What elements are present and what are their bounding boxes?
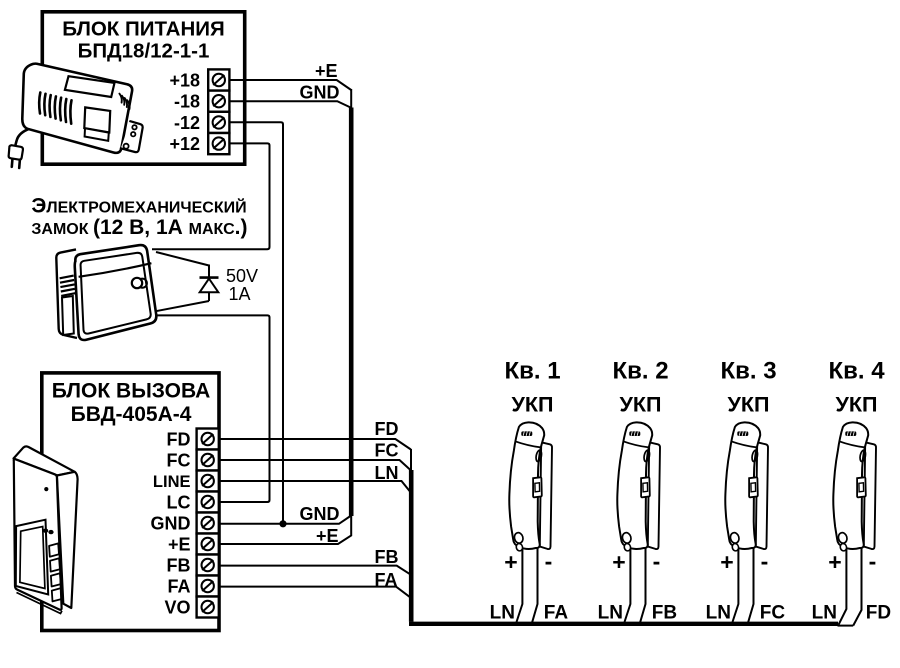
screw symbol FC — [202, 454, 214, 466]
svg-text:БВД-405А-4: БВД-405А-4 — [71, 403, 192, 426]
screw symbol FA — [202, 580, 214, 592]
svg-text:+18: +18 — [169, 71, 200, 91]
wire handset1 LN — [517, 548, 523, 622]
panel bottom sliver — [17, 593, 62, 614]
node junction dot -12/GND — [279, 520, 286, 527]
svg-text:FB: FB — [652, 603, 677, 624]
svg-text:БЛОК ВЫЗОВА: БЛОК ВЫЗОВА — [52, 380, 211, 403]
lock back plate — [56, 249, 77, 338]
svg-text:УКП: УКП — [836, 392, 878, 416]
terminal block BPD (+18 -18 -12 +12) — [208, 69, 229, 154]
wire trunk left (bundle +E/GND) — [349, 108, 354, 517]
screw symbol GND — [202, 517, 214, 529]
adapter mounting bracket — [121, 121, 143, 152]
handset bottom ovals — [513, 532, 524, 544]
wire FD from BVD — [218, 439, 411, 450]
svg-text:УКП: УКП — [728, 392, 770, 416]
power supply adapter drawing — [9, 64, 143, 168]
svg-text:-12: -12 — [174, 113, 200, 133]
panel front face — [14, 459, 62, 610]
screw symbol +E — [202, 538, 214, 550]
wire handset1 FA — [532, 548, 538, 623]
screw symbol FD — [202, 433, 214, 445]
adapter plug prongs — [12, 160, 20, 169]
svg-text:ЭЛЕКТРОМЕХАНИЧЕСКИЙ: ЭЛЕКТРОМЕХАНИЧЕСКИЙ — [31, 195, 246, 218]
svg-text:LINE: LINE — [153, 473, 191, 491]
svg-text:+: + — [720, 549, 733, 575]
screw symbol -12 — [213, 116, 225, 128]
panel top face — [14, 446, 75, 475]
intercom panel drawing (BVD front) — [14, 446, 78, 613]
svg-text:LN: LN — [706, 603, 731, 624]
lock main body — [75, 245, 157, 340]
svg-text:LN: LN — [490, 603, 515, 624]
wire FC from BVD — [218, 460, 411, 471]
lock bolt plate — [62, 296, 74, 335]
wire bus thin tail right end — [838, 625, 854, 627]
handset UKP Kv.3 — [725, 422, 768, 551]
adapter plug — [9, 145, 23, 159]
wire trunk right (bundle to bus) — [409, 470, 414, 622]
svg-text:FC: FC — [375, 440, 399, 460]
screw symbol LINE — [202, 475, 214, 487]
handset UKP Kv.2 — [617, 422, 660, 551]
handset UKP Kv.1 — [509, 422, 552, 551]
handset hook hole — [535, 450, 542, 462]
panel button 4 — [52, 588, 62, 601]
lock cylinder button — [138, 279, 147, 288]
svg-text:FD: FD — [866, 603, 891, 624]
wire trunk right thin tip — [410, 449, 412, 471]
terminal +12 — [208, 133, 229, 154]
svg-text:БПД18/12-1-1: БПД18/12-1-1 — [78, 40, 210, 63]
wire LN from BVD LINE — [218, 481, 411, 493]
wire slant diode bottom to lock — [156, 301, 209, 311]
adapter bracket screw holes — [132, 125, 136, 129]
screw symbol +18 — [213, 74, 225, 86]
handset earpiece line — [515, 441, 541, 447]
svg-text:LN: LN — [812, 603, 837, 624]
adapter body — [22, 64, 132, 153]
panel button 3 — [51, 573, 61, 586]
svg-text:+: + — [504, 549, 517, 575]
wire +E from +18 terminal — [229, 80, 351, 90]
screw symbol FB — [202, 559, 214, 571]
handset logo — [521, 431, 532, 436]
wire trunk left thin tip — [350, 89, 352, 108]
wire +12 to lock top — [152, 143, 270, 249]
screw symbol -18 — [213, 95, 225, 107]
handset bracket plate — [540, 442, 552, 549]
wire lock bottom to LC terminal — [150, 315, 270, 502]
diode VD1 50V 1A — [200, 265, 219, 302]
svg-text:+: + — [828, 549, 841, 575]
panel side face — [57, 472, 78, 608]
wires layer — [150, 80, 862, 626]
svg-text:+E: +E — [168, 535, 191, 555]
wire slant lock to diode top — [156, 252, 209, 266]
panel mic dot — [44, 487, 48, 491]
wire bus horizontal trunk — [409, 622, 838, 626]
handset mid button — [533, 477, 542, 497]
svg-text:БЛОК ПИТАНИЯ: БЛОК ПИТАНИЯ — [62, 18, 225, 41]
svg-text:FC: FC — [167, 451, 191, 471]
screw symbol +12 — [213, 137, 225, 149]
svg-text:+12: +12 — [169, 134, 200, 154]
screw symbol LC — [202, 496, 214, 508]
terminal FB — [197, 555, 219, 576]
svg-text:FA: FA — [167, 577, 190, 597]
svg-text:LN: LN — [598, 603, 623, 624]
svg-text:FB: FB — [167, 556, 191, 576]
wire handset4 FD — [853, 548, 861, 626]
panel button 2 — [50, 558, 60, 571]
adapter cable — [15, 129, 30, 149]
adapter top label plate — [65, 76, 115, 97]
lock inner outline — [81, 253, 151, 334]
svg-text:-: - — [545, 548, 553, 574]
svg-text:1А: 1А — [229, 284, 251, 304]
svg-text:-: - — [869, 548, 877, 574]
svg-text:GND: GND — [151, 514, 191, 534]
wire handset3 LN — [733, 548, 739, 622]
svg-text:FA: FA — [544, 603, 569, 624]
svg-text:Кв. 2: Кв. 2 — [612, 358, 668, 385]
terminal block BVD (FD..VO) — [197, 429, 219, 618]
svg-text:+E: +E — [315, 61, 338, 81]
svg-text:LC: LC — [167, 493, 191, 513]
terminal GND — [197, 513, 219, 534]
svg-text:FA: FA — [375, 570, 398, 590]
panel keypad inner — [20, 527, 45, 589]
adapter terminal window — [84, 107, 110, 132]
terminal LINE — [197, 471, 219, 492]
handset body — [509, 422, 544, 549]
terminal FC — [197, 450, 219, 471]
svg-text:GND: GND — [300, 504, 340, 524]
terminal +E — [197, 534, 219, 555]
terminal FA — [197, 576, 219, 597]
svg-text:Кв. 3: Кв. 3 — [720, 358, 776, 385]
panel led dots — [43, 529, 48, 533]
frame box BPD18/12-1-1 (power supply unit) — [42, 12, 244, 164]
svg-text:УКП: УКП — [512, 392, 554, 416]
svg-text:+E: +E — [316, 526, 339, 546]
terminal -12 — [208, 112, 229, 133]
wire GND branch to BVD GND terminal — [218, 516, 351, 524]
terminal FD — [197, 429, 219, 450]
wire handset4 LN — [839, 548, 847, 625]
svg-text:-: - — [653, 548, 661, 574]
svg-text:Кв. 1: Кв. 1 — [504, 358, 560, 385]
lock plate hatch vents — [60, 276, 76, 296]
wire handset3 FC — [748, 548, 754, 623]
adapter vent slots — [39, 93, 40, 114]
svg-text:FD: FD — [375, 419, 399, 439]
handset UKP Kv.4 — [833, 422, 876, 551]
svg-text:-18: -18 — [174, 92, 200, 112]
svg-text:FD: FD — [167, 430, 191, 450]
frame box BVD-405A-4 (call unit) — [42, 373, 219, 631]
svg-text:GND: GND — [300, 82, 340, 102]
wire +E branch to BVD +E terminal — [218, 514, 351, 544]
svg-text:ЗАМОК (12 В, 1А МАКС.): ЗАМОК (12 В, 1А МАКС.) — [31, 216, 247, 239]
svg-text:Кв. 4: Кв. 4 — [828, 358, 885, 385]
panel keypad outer — [16, 520, 48, 595]
svg-text:VO: VO — [164, 598, 190, 618]
terminal -18 — [208, 91, 229, 112]
terminal +18 — [208, 69, 229, 90]
adapter right vents — [119, 94, 121, 103]
svg-text:LN: LN — [375, 463, 399, 483]
wire FA from BVD — [218, 587, 410, 598]
svg-text:50V: 50V — [226, 266, 258, 286]
svg-text:-: - — [761, 548, 769, 574]
wire -12 down to GND junction — [229, 122, 283, 522]
terminal VO — [197, 597, 219, 618]
adapter terminal step — [85, 128, 109, 141]
screw symbol VO — [202, 601, 214, 613]
svg-text:FB: FB — [375, 547, 399, 567]
svg-text:FC: FC — [760, 603, 786, 624]
wire handset2 FB — [640, 548, 646, 623]
electromechanical lock drawing — [56, 245, 156, 340]
wire FB from BVD — [218, 566, 410, 575]
svg-text:УКП: УКП — [620, 392, 662, 416]
lock face divide curve — [79, 263, 152, 277]
wire handset2 LN — [625, 548, 631, 622]
svg-text:+: + — [612, 549, 625, 575]
wire GND from -18 terminal — [229, 101, 351, 107]
terminal LC — [197, 492, 219, 513]
panel button 1 — [49, 543, 59, 556]
